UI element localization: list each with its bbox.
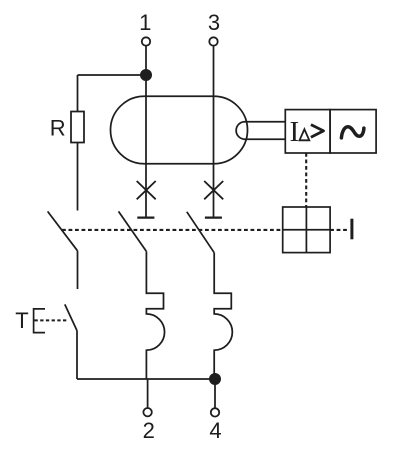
svg-text:2: 2 (143, 418, 155, 443)
svg-text:3: 3 (208, 10, 220, 35)
svg-text:4: 4 (209, 418, 221, 443)
svg-text:1: 1 (139, 10, 151, 35)
svg-text:R: R (50, 115, 66, 140)
svg-text:T: T (15, 308, 28, 333)
svg-text:I: I (290, 116, 300, 148)
